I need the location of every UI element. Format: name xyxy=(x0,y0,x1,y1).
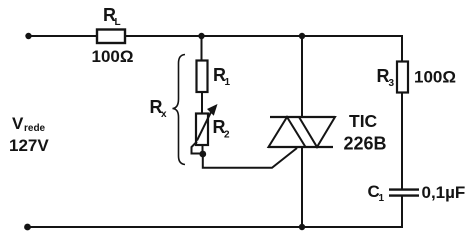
wire from top node down to R1 xyxy=(201,36,203,61)
wire bottom horizontal xyxy=(27,226,403,228)
svg-text:100Ω: 100Ω xyxy=(92,47,134,66)
label R2 xyxy=(213,117,231,141)
wire top-right corner down to R3 xyxy=(401,35,403,62)
svg-text:TIC: TIC xyxy=(349,111,378,131)
node left bottom terminal xyxy=(24,224,31,231)
svg-text:rede: rede xyxy=(24,123,46,134)
wire R2 bottom lead to node xyxy=(202,145,204,154)
label RL xyxy=(103,5,121,28)
svg-text:x: x xyxy=(161,109,167,120)
svg-text:L: L xyxy=(115,17,121,28)
node R2 junction xyxy=(199,151,206,158)
label C1 xyxy=(368,182,385,204)
resistor R3 xyxy=(397,62,408,93)
resistor R1 xyxy=(197,61,208,93)
wire C1 down to bottom xyxy=(401,196,403,227)
node junction top triac xyxy=(299,33,305,39)
wire top horizontal xyxy=(28,35,402,37)
brace for Rx xyxy=(173,55,186,165)
svg-text:226B: 226B xyxy=(344,134,387,154)
svg-text:0,1µF: 0,1µF xyxy=(422,183,466,202)
label R1 xyxy=(213,65,231,88)
svg-text:2: 2 xyxy=(224,130,230,141)
node triac bottom junction xyxy=(299,224,305,230)
wire gate lead to triac xyxy=(203,148,297,168)
svg-text:1: 1 xyxy=(379,193,385,204)
label Rx xyxy=(150,97,168,120)
wire R3 to C1 xyxy=(401,92,403,190)
svg-text:100Ω: 100Ω xyxy=(414,68,456,87)
label Vrede xyxy=(12,114,46,134)
svg-text:3: 3 xyxy=(389,78,395,89)
wire R2 wiper connection xyxy=(192,142,203,154)
triac TIC226B xyxy=(268,36,335,227)
label R3 xyxy=(377,66,395,89)
capacitor C1 xyxy=(389,190,419,196)
svg-text:127V: 127V xyxy=(9,136,49,155)
svg-text:1: 1 xyxy=(225,77,231,88)
node left top terminal xyxy=(25,33,31,39)
svg-text:V: V xyxy=(12,114,24,133)
resistor RL xyxy=(97,30,125,44)
node junction top middle xyxy=(198,33,204,39)
wire between R1 and R2 xyxy=(201,92,203,114)
potentiometer R2 xyxy=(196,104,218,145)
